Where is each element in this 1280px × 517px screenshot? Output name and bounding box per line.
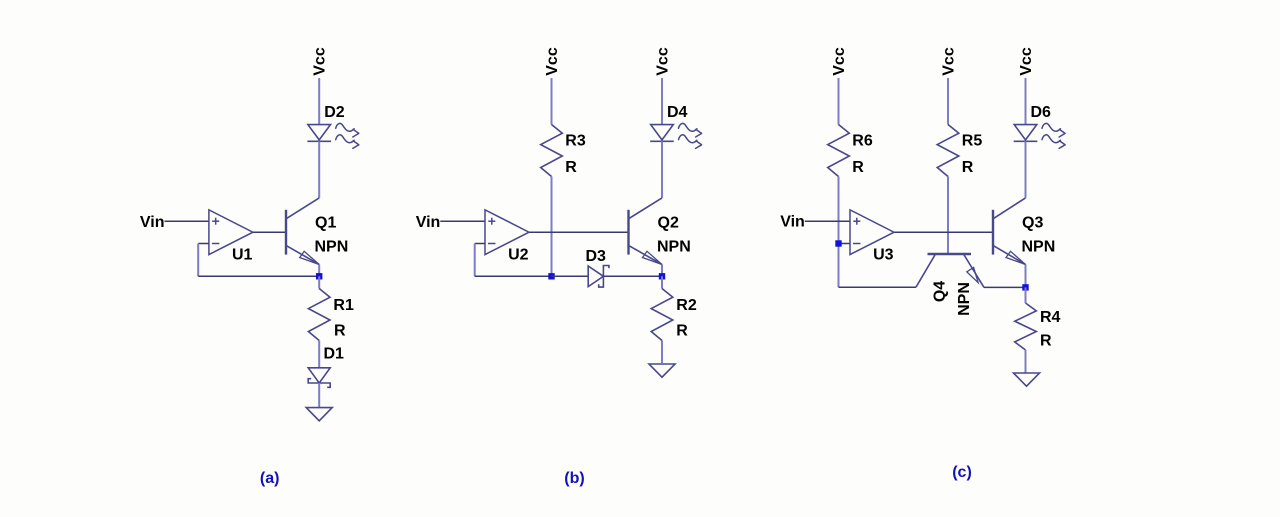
transistor Q1 — [286, 198, 319, 265]
svg-text:R2: R2 — [676, 297, 697, 314]
svg-text:R5: R5 — [962, 132, 983, 149]
svg-text:U1: U1 — [232, 247, 253, 264]
svg-text:R: R — [962, 159, 974, 176]
svg-text:Vcc: Vcc — [312, 47, 329, 76]
svg-text:Q3: Q3 — [1022, 214, 1043, 231]
schottky diode D3 — [588, 266, 609, 288]
wire Vcc to LED D2 (a) — [318, 78, 320, 125]
svg-text:Vcc: Vcc — [544, 47, 561, 76]
svg-text:D2: D2 — [324, 104, 345, 121]
resistor R5 — [937, 125, 959, 177]
transistor Q4 (rotated) — [916, 254, 984, 287]
svg-text:(a): (a) — [260, 470, 280, 487]
svg-text:(b): (b) — [564, 470, 584, 487]
op-amp U3 — [850, 210, 894, 255]
wire Vin to U3 noninverting input (crosses R6 rail) — [805, 220, 850, 222]
wire D3 cathode to node C — [603, 275, 662, 277]
svg-text:D1: D1 — [324, 345, 345, 362]
node B (b) at R3 and D3 anode — [548, 273, 554, 279]
wire U3 inverting input to node D — [839, 243, 851, 245]
op-amp U2 — [485, 210, 529, 255]
wire node C to R2 — [661, 276, 663, 288]
wire Vcc to LED D6 — [1025, 78, 1027, 125]
schottky diode D1 — [308, 368, 330, 388]
wire Q1 emitter to node A — [318, 265, 320, 277]
ground (a) — [306, 408, 332, 421]
node E (c) emitter junction — [1022, 284, 1028, 290]
wire D1 to ground (a) — [318, 383, 320, 408]
wire R4 to ground (c) — [1025, 350, 1027, 373]
resistor R2 — [651, 289, 673, 341]
wire Vin to U1 noninverting input — [165, 220, 209, 222]
wire R2 to ground (b) — [661, 341, 663, 364]
svg-text:NPN: NPN — [315, 238, 349, 255]
svg-text:D6: D6 — [1031, 104, 1052, 121]
svg-text:U3: U3 — [873, 247, 894, 264]
svg-text:R4: R4 — [1040, 309, 1061, 326]
resistor R6 — [828, 125, 850, 177]
resistor R3 — [541, 125, 563, 177]
light emission arrows D2 — [336, 123, 359, 148]
svg-text:Vin: Vin — [140, 214, 165, 231]
light emission arrows D4 — [679, 123, 702, 148]
wire R1 to D1 — [318, 341, 320, 368]
svg-text:Vcc: Vcc — [1018, 47, 1035, 76]
node C (b) emitter junction — [659, 273, 665, 279]
op-amp U1 — [209, 210, 253, 255]
svg-text:R: R — [852, 159, 864, 176]
wire node B to D3 anode — [552, 275, 589, 277]
node D (c) on R6 rail — [835, 240, 841, 246]
svg-text:R: R — [565, 159, 577, 176]
ground (b) — [649, 364, 675, 377]
svg-text:R: R — [1040, 332, 1052, 349]
svg-text:Vcc: Vcc — [940, 47, 957, 76]
transistor Q3 — [993, 198, 1026, 265]
wire LED D4 to Q2 collector — [661, 141, 663, 198]
wire Q2 emitter to node C — [661, 265, 663, 277]
ground (c) — [1014, 373, 1040, 386]
wire node A to R1 — [318, 276, 320, 288]
svg-text:R3: R3 — [565, 132, 586, 149]
transistor Q2 — [629, 198, 663, 265]
wire Vcc to LED D4 — [661, 78, 663, 125]
wire LED D2 to Q1 collector — [318, 141, 320, 198]
wire node E to R4 — [1025, 287, 1027, 303]
LED D4 — [650, 125, 674, 142]
wire Vin to U2 noninverting input — [440, 220, 485, 222]
svg-text:R: R — [676, 322, 688, 339]
svg-text:NPN: NPN — [1022, 238, 1056, 255]
svg-text:(c): (c) — [952, 464, 972, 481]
svg-text:NPN: NPN — [956, 282, 973, 316]
wire U2 output to Q2 base — [529, 231, 629, 233]
node A (a) emitter junction — [316, 273, 322, 279]
svg-text:NPN: NPN — [657, 238, 691, 255]
svg-text:D4: D4 — [667, 104, 688, 121]
wire U1 output to Q1 base — [253, 231, 286, 233]
wire Vcc to R6 — [838, 78, 840, 125]
svg-text:U2: U2 — [508, 247, 529, 264]
svg-text:R: R — [334, 322, 346, 339]
svg-text:Vcc: Vcc — [654, 47, 671, 76]
svg-text:Vin: Vin — [416, 214, 441, 231]
wire R6 to node D (crosses Vin wire) — [838, 177, 840, 288]
wire node D rail corner to Q4 collector — [839, 286, 917, 288]
wire Q3 emitter to node E — [1025, 265, 1027, 288]
svg-text:Q4: Q4 — [932, 281, 949, 302]
svg-text:Q2: Q2 — [658, 214, 679, 231]
resistor R4 — [1015, 303, 1037, 350]
svg-text:Vcc: Vcc — [831, 47, 848, 76]
feedback wire U1 inverting input to node A — [198, 244, 319, 277]
wire LED D6 to Q3 collector — [1025, 141, 1027, 198]
svg-text:Vin: Vin — [780, 214, 805, 231]
wire Vcc to R3 — [551, 78, 553, 125]
wire R3 to node B (crosses U2 output) — [551, 177, 553, 277]
wire Vcc to R5 — [947, 78, 949, 125]
svg-text:R6: R6 — [852, 132, 873, 149]
svg-text:D3: D3 — [586, 248, 607, 265]
svg-text:R1: R1 — [333, 297, 354, 314]
light emission arrows D6 — [1042, 123, 1065, 148]
wire Q4 emitter to node E — [984, 286, 1026, 288]
LED D2 — [307, 125, 331, 142]
feedback wire U2 inverting input to node B — [475, 244, 552, 277]
wire U3 output to Q3 base — [894, 231, 993, 233]
wire R5 to Q4 base (crosses U3 output) — [947, 177, 949, 255]
svg-text:Q1: Q1 — [315, 214, 336, 231]
LED D6 — [1014, 125, 1038, 142]
resistor R1 — [308, 289, 330, 341]
